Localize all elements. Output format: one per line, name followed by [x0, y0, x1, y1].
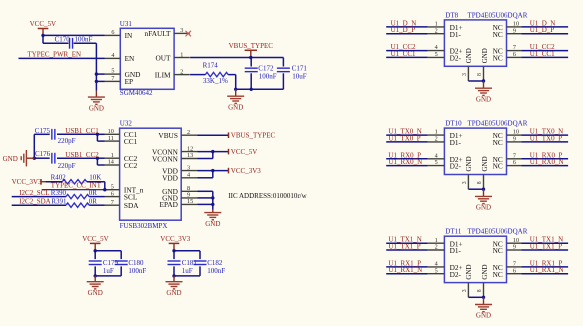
svg-text:C175: C175	[35, 127, 51, 135]
svg-text:VBUS_TYPEC: VBUS_TYPEC	[229, 42, 274, 50]
svg-text:DT10: DT10	[445, 120, 462, 128]
svg-text:2: 2	[435, 244, 438, 251]
svg-text:R402: R402	[51, 173, 67, 181]
svg-text:3: 3	[462, 289, 468, 292]
svg-text:R391: R391	[51, 198, 67, 206]
svg-text:EPAD: EPAD	[160, 200, 178, 209]
svg-text:9: 9	[513, 244, 516, 251]
svg-text:U1_TX0_P: U1_TX0_P	[530, 134, 562, 142]
svg-text:11: 11	[108, 135, 114, 142]
svg-text:USB1_CC2: USB1_CC2	[65, 151, 99, 159]
svg-text:2: 2	[435, 27, 438, 34]
svg-text:3: 3	[187, 164, 190, 171]
svg-text:NC: NC	[493, 270, 503, 279]
svg-text:U1_CC1: U1_CC1	[530, 50, 555, 58]
svg-text:GND: GND	[3, 155, 18, 163]
svg-text:VBUS: VBUS	[158, 131, 177, 140]
svg-text:U1_CC1: U1_CC1	[391, 50, 416, 58]
svg-text:3: 3	[462, 73, 468, 76]
svg-text:C176: C176	[35, 150, 51, 158]
svg-text:6: 6	[513, 159, 516, 166]
svg-text:D1-: D1-	[450, 246, 462, 255]
svg-text:5: 5	[435, 267, 438, 274]
svg-text:EN: EN	[125, 54, 135, 63]
svg-text:0R: 0R	[89, 189, 98, 197]
svg-text:6: 6	[111, 190, 114, 197]
svg-text:2: 2	[180, 68, 183, 75]
svg-text:VCC_5V: VCC_5V	[82, 235, 108, 243]
svg-text:TPD4E05U06DQAR: TPD4E05U06DQAR	[468, 228, 528, 236]
svg-text:4: 4	[187, 172, 190, 179]
svg-text:I2C2_SCL: I2C2_SCL	[19, 189, 49, 197]
svg-text:6: 6	[513, 51, 516, 58]
svg-text:GND: GND	[476, 204, 491, 212]
svg-text:3: 3	[462, 181, 468, 184]
svg-text:OUT: OUT	[156, 53, 172, 62]
svg-text:8: 8	[477, 289, 483, 292]
svg-text:EP: EP	[125, 77, 134, 86]
svg-text:100nF: 100nF	[75, 36, 93, 44]
svg-text:U1_TX1_P: U1_TX1_P	[388, 243, 420, 251]
svg-text:VCC_3V3: VCC_3V3	[12, 178, 42, 186]
svg-text:U1_D_P: U1_D_P	[391, 26, 416, 34]
svg-text:NC: NC	[493, 246, 503, 255]
svg-text:GND: GND	[88, 289, 103, 297]
svg-text:8: 8	[477, 73, 483, 76]
svg-text:TYPEC_PWR_EN: TYPEC_PWR_EN	[27, 51, 81, 59]
svg-text:FUSB302BMPX: FUSB302BMPX	[120, 222, 168, 230]
svg-text:SGM40642: SGM40642	[120, 89, 153, 97]
svg-text:10uF: 10uF	[292, 73, 307, 81]
svg-text:CC1: CC1	[124, 137, 138, 146]
svg-text:DT8: DT8	[445, 11, 458, 19]
svg-text:5: 5	[435, 51, 438, 58]
svg-text:GND: GND	[481, 156, 489, 171]
svg-text:I2C2_SDA: I2C2_SDA	[19, 197, 51, 205]
svg-text:14: 14	[108, 159, 114, 166]
svg-text:NC: NC	[493, 30, 503, 39]
svg-text:TPD4E05U06DQAR: TPD4E05U06DQAR	[468, 11, 528, 19]
svg-text:GND: GND	[476, 95, 491, 103]
svg-text:GND: GND	[205, 220, 220, 228]
svg-text:TPD4E05U06DQAR: TPD4E05U06DQAR	[468, 120, 528, 128]
svg-text:C172: C172	[258, 65, 274, 73]
svg-text:C181: C181	[182, 259, 198, 267]
svg-text:USB1_CC1: USB1_CC1	[65, 127, 99, 135]
svg-text:15: 15	[187, 198, 193, 205]
svg-text:DT11: DT11	[445, 228, 462, 236]
svg-text:U1_RX1_N: U1_RX1_N	[530, 266, 564, 274]
svg-text:VCONN: VCONN	[152, 154, 179, 163]
svg-text:GND: GND	[89, 104, 104, 112]
svg-text:3: 3	[180, 27, 183, 34]
svg-text:U1_RX0_N: U1_RX0_N	[388, 158, 422, 166]
svg-text:8: 8	[477, 181, 483, 184]
svg-text:2: 2	[435, 136, 438, 143]
svg-text:U1_D_P: U1_D_P	[530, 26, 555, 34]
svg-text:100nF: 100nF	[128, 267, 146, 275]
svg-text:6: 6	[111, 29, 114, 36]
svg-text:GND: GND	[481, 48, 489, 63]
svg-text:9: 9	[513, 27, 516, 34]
svg-text:U1_TX1_P: U1_TX1_P	[530, 243, 562, 251]
svg-text:U1_RX0_N: U1_RX0_N	[530, 158, 564, 166]
svg-text:R174: R174	[203, 62, 219, 70]
svg-text:1uF: 1uF	[182, 267, 193, 275]
svg-text:220pF: 220pF	[58, 162, 76, 170]
svg-text:7: 7	[111, 199, 114, 206]
svg-text:NC: NC	[493, 162, 503, 171]
svg-text:VBUS_TYPEC: VBUS_TYPEC	[231, 132, 276, 140]
svg-text:GND: GND	[476, 312, 491, 320]
svg-text:NC: NC	[493, 54, 503, 63]
svg-text:C180: C180	[128, 259, 144, 267]
svg-text:SDA: SDA	[124, 201, 139, 210]
svg-text:VCC_3V3: VCC_3V3	[160, 235, 190, 243]
svg-text:U1_RX1_N: U1_RX1_N	[388, 266, 422, 274]
svg-text:GND: GND	[465, 48, 473, 63]
svg-text:U31: U31	[120, 20, 133, 28]
svg-text:D1-: D1-	[450, 138, 462, 147]
svg-text:10K: 10K	[89, 173, 101, 181]
svg-text:C179: C179	[103, 259, 119, 267]
svg-text:0R: 0R	[89, 197, 98, 205]
svg-text:CC2: CC2	[124, 161, 138, 170]
svg-text:D2-: D2-	[450, 54, 462, 63]
svg-text:GND: GND	[166, 289, 181, 297]
svg-text:6: 6	[513, 267, 516, 274]
svg-text:4: 4	[111, 52, 114, 59]
svg-text:R390: R390	[51, 189, 67, 197]
svg-text:U1_TX0_P: U1_TX0_P	[388, 134, 420, 142]
svg-text:VCC_5V: VCC_5V	[231, 148, 257, 156]
svg-text:D2-: D2-	[450, 162, 462, 171]
svg-text:U32: U32	[120, 119, 133, 127]
svg-text:GND: GND	[465, 264, 473, 279]
svg-text:nFAULT: nFAULT	[145, 29, 171, 38]
svg-text:D1-: D1-	[450, 30, 462, 39]
svg-text:1: 1	[180, 51, 183, 58]
svg-text:GND: GND	[465, 156, 473, 171]
svg-text:GND: GND	[481, 264, 489, 279]
svg-text:9: 9	[513, 136, 516, 143]
svg-text:13: 13	[187, 152, 193, 159]
svg-text:5: 5	[111, 68, 114, 75]
svg-text:VDD: VDD	[162, 174, 178, 183]
svg-text:C170: C170	[55, 36, 71, 44]
svg-text:220pF: 220pF	[58, 137, 76, 145]
svg-text:IN: IN	[125, 31, 133, 40]
svg-text:33K_1%: 33K_1%	[203, 77, 228, 85]
svg-text:7: 7	[111, 75, 114, 82]
svg-text:100nF: 100nF	[207, 267, 225, 275]
svg-text:VCC_5V: VCC_5V	[30, 20, 56, 28]
svg-text:100nF: 100nF	[259, 73, 277, 81]
svg-text:VCC_3V3: VCC_3V3	[231, 167, 261, 175]
svg-text:2: 2	[187, 129, 190, 136]
svg-text:D2-: D2-	[450, 270, 462, 279]
svg-text:5: 5	[435, 159, 438, 166]
svg-text:1uF: 1uF	[103, 267, 114, 275]
svg-text:ILIM: ILIM	[155, 70, 171, 79]
svg-text:GND: GND	[228, 103, 243, 111]
svg-text:IIC ADDRESS:0100010r/w: IIC ADDRESS:0100010r/w	[228, 192, 307, 200]
svg-text:C171: C171	[292, 65, 308, 73]
svg-text:C182: C182	[207, 259, 223, 267]
svg-text:NC: NC	[493, 138, 503, 147]
